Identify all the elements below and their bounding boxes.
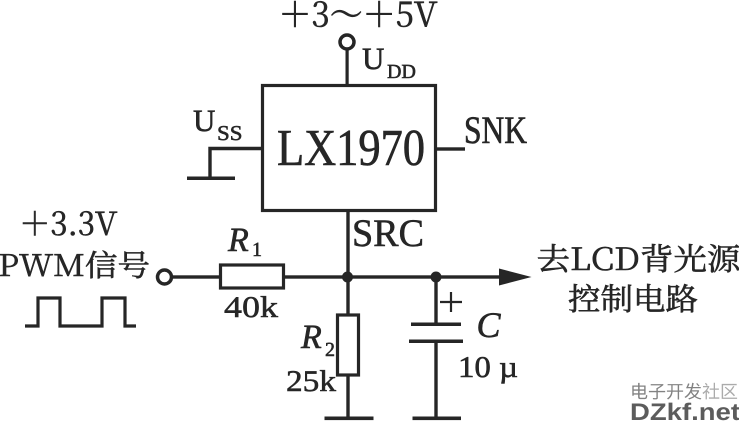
pin label UDD xyxy=(363,49,415,78)
watermark site name CN part1 xyxy=(632,383,701,400)
node label PWM signal xyxy=(0,251,149,279)
wire PWM terminal to R1 xyxy=(171,275,221,278)
C value 10u xyxy=(461,357,517,383)
capacitor C polarity mark + xyxy=(440,292,462,312)
wire R2 to ground xyxy=(346,375,349,418)
output label: to LCD backlight line1 xyxy=(538,244,739,272)
watermark site name CN part2 xyxy=(703,383,738,400)
U1 value label LX1970 xyxy=(278,130,423,165)
R2 ref label xyxy=(301,326,334,356)
R1 ref label xyxy=(228,229,261,256)
wire capacitor C to ground xyxy=(434,343,437,418)
output label: to LCD backlight line2 xyxy=(569,284,697,313)
wire USS pin xyxy=(210,149,262,177)
R1 value 40k xyxy=(225,296,278,317)
ground (C) xyxy=(413,417,462,421)
terminal (supply input) xyxy=(340,35,354,49)
node junction A (SRC/R1/R2) xyxy=(342,272,353,283)
arrow to LCD backlight circuit xyxy=(499,269,532,286)
terminal (PWM input) xyxy=(158,270,172,284)
net +3~+5V supply label xyxy=(283,1,438,27)
pin label USS xyxy=(194,111,241,141)
C ref label xyxy=(479,313,501,337)
resistor R2 body xyxy=(338,315,359,375)
ground (R2) xyxy=(325,417,374,421)
wire SRC pin xyxy=(346,210,349,278)
pin label SNK xyxy=(466,117,527,143)
wire junction B to capacitor C xyxy=(434,277,437,324)
node junction B (cap C) xyxy=(431,272,442,283)
PWM square waveform symbol xyxy=(25,298,136,326)
R2 value 25k xyxy=(288,370,337,391)
ground (USS) xyxy=(187,177,235,181)
wire SNK pin xyxy=(436,147,465,150)
wire R1 to output arrow xyxy=(284,275,502,278)
node label +3.3V xyxy=(23,211,117,235)
capacitor C bottom plate xyxy=(409,340,463,344)
resistor R1 body xyxy=(221,265,284,288)
capacitor C top plate xyxy=(411,323,461,327)
wire junction A to R2 xyxy=(346,277,349,315)
pin label SRC xyxy=(355,220,422,246)
wire supply terminal to U1 UDD pin xyxy=(346,49,349,85)
IC U1 LX1970 body xyxy=(263,86,436,211)
watermark DZkf.net xyxy=(632,403,739,421)
